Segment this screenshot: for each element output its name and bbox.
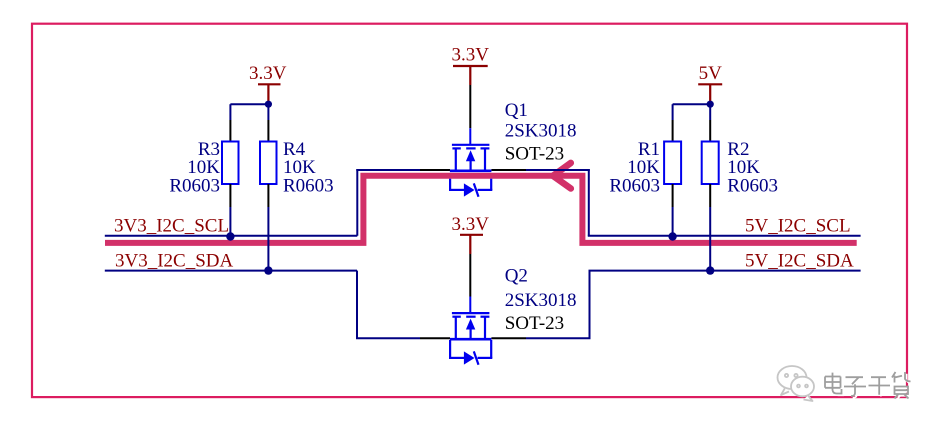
junction power-right <box>707 101 714 108</box>
watermark text dian-zi-gan-huo <box>825 372 912 400</box>
svg-text:R0603: R0603 <box>169 175 220 196</box>
resistor R4 <box>260 142 277 185</box>
wire R4 top lead <box>267 104 269 141</box>
wire R4 bottom lead <box>267 184 269 271</box>
label Q1 <box>505 100 577 164</box>
wire SDA bottom horizontal from Q2 to right <box>526 337 591 339</box>
svg-text:Q1: Q1 <box>505 100 528 121</box>
body diode Q2 <box>449 340 492 365</box>
junction power-left <box>265 101 272 108</box>
wire SCL top horizontal to Q1 <box>356 169 420 171</box>
label R1 <box>609 139 660 196</box>
wire SDA right vertical riser <box>589 271 591 339</box>
svg-text:2SK3018: 2SK3018 <box>505 121 577 142</box>
svg-text:2SK3018: 2SK3018 <box>505 290 577 311</box>
label R3 <box>169 139 220 196</box>
wire SDA left vertical drop <box>356 271 358 339</box>
pin Q2 source (black) <box>420 337 450 339</box>
wire power-left horizontal <box>230 103 268 105</box>
svg-text:5V: 5V <box>699 63 723 84</box>
wire 5V_I2C_SCL horizontal <box>588 235 861 237</box>
svg-text:R0603: R0603 <box>609 175 660 196</box>
svg-text:5V_I2C_SCL: 5V_I2C_SCL <box>745 216 851 237</box>
svg-text:R0603: R0603 <box>727 175 778 196</box>
label Q2 <box>505 265 577 334</box>
junction R2-SDA <box>706 266 714 274</box>
wire R1 bottom lead <box>672 184 674 236</box>
wire R3 bottom lead <box>229 184 231 236</box>
pin Q1 drain (black) <box>491 169 526 171</box>
junction R1-SCL <box>668 232 676 240</box>
svg-text:3.3V: 3.3V <box>452 45 490 66</box>
svg-text:3.3V: 3.3V <box>249 63 287 84</box>
power rail 3.3V middle (Q2 gate) <box>452 214 490 254</box>
wire R3 top lead <box>229 104 231 141</box>
svg-text:3.3V: 3.3V <box>452 214 490 235</box>
svg-text:3V3_I2C_SCL: 3V3_I2C_SCL <box>114 216 229 237</box>
resistor R2 <box>702 142 719 185</box>
wire Q2 gate lead (black) <box>469 254 471 297</box>
resistor R3 <box>222 142 239 185</box>
pin Q1 source (black) <box>420 169 450 171</box>
wire SCL left vertical riser <box>356 169 358 236</box>
svg-text:SOT-23: SOT-23 <box>505 313 564 334</box>
svg-text:Q2: Q2 <box>505 265 528 286</box>
power rail 3.3V top (Q1 gate) <box>452 45 490 86</box>
pin Q2 drain (black) <box>491 337 526 339</box>
body diode Q1 <box>449 179 492 197</box>
wire SDA bottom horizontal to Q2 <box>356 337 420 339</box>
svg-text:5V_I2C_SDA: 5V_I2C_SDA <box>745 250 854 271</box>
wire 5V_I2C_SDA horizontal <box>589 270 861 272</box>
power rail 3.3V left symbol <box>249 63 287 104</box>
wire R2 top lead <box>709 104 711 141</box>
wire Q1 gate lead (black) <box>469 85 471 128</box>
label R4 <box>283 139 334 196</box>
wire R2 bottom lead <box>709 184 711 271</box>
transistor Q2 (2SK3018) <box>450 297 492 340</box>
wire SCL top horizontal from Q1 to right <box>526 169 590 171</box>
power rail 5V symbol <box>698 63 722 104</box>
label R2 <box>727 139 778 196</box>
junction R3-SCL <box>226 232 234 240</box>
junction R4-SDA <box>264 266 272 274</box>
svg-text:3V3_I2C_SDA: 3V3_I2C_SDA <box>115 250 234 271</box>
wire power-right horizontal <box>673 103 711 105</box>
highlighted SCL signal path (pink) <box>105 176 857 243</box>
svg-text:SOT-23: SOT-23 <box>505 144 564 165</box>
wire SCL right vertical drop <box>588 169 590 236</box>
svg-text:R0603: R0603 <box>283 175 334 196</box>
resistor R1 <box>664 142 681 185</box>
watermark wechat icon <box>778 366 815 401</box>
transistor Q1 (2SK3018) <box>450 128 492 171</box>
wire R1 top lead <box>672 104 674 141</box>
arrowhead on highlighted path <box>553 163 571 189</box>
wire 3V3_I2C_SCL horizontal <box>105 235 357 237</box>
wire 3V3_I2C_SDA horizontal <box>105 270 357 272</box>
